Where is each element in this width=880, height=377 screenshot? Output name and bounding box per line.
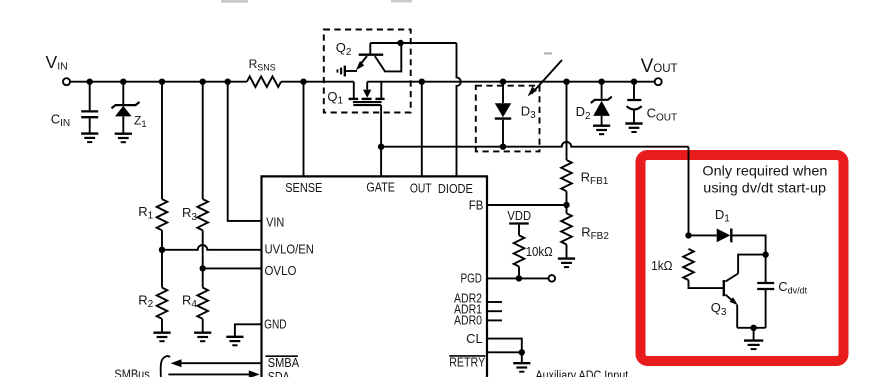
svg-text:GATE: GATE: [366, 181, 395, 195]
wire FB: [487, 204, 567, 206]
dashed box Q1 Q2: [324, 30, 411, 113]
wire GND pin: [235, 324, 262, 336]
resistor R4: [197, 288, 208, 319]
transistor Q1: [349, 82, 385, 105]
wire UVLO/EN with hop over R3 leg: [162, 245, 262, 250]
svg-text:SENSE: SENSE: [285, 181, 322, 195]
node R3 R4 OVLO junction: [200, 265, 206, 271]
wire R4 to ground: [202, 319, 204, 333]
capacitor COUT: [627, 82, 642, 123]
transistor Q2: [345, 43, 401, 71]
svg-text:VIN: VIN: [266, 215, 284, 229]
node D3 rail: [500, 79, 506, 85]
ground RFB2: [558, 259, 575, 268]
wire to ground: [521, 352, 523, 362]
wire input rail left: [70, 81, 247, 83]
diode D3: [495, 82, 511, 147]
ground COUT: [625, 124, 642, 133]
wire R1 branch from rail: [161, 82, 163, 199]
wire Q3 emitter to ground: [737, 327, 765, 329]
zener Z1: [112, 82, 140, 134]
svg-text:SMBus: SMBus: [114, 368, 149, 377]
wire CL: [487, 339, 522, 353]
svg-text:PGD: PGD: [461, 272, 482, 286]
svg-text:Auxiliary ADC Input: Auxiliary ADC Input: [536, 368, 629, 377]
wire into dv/dt circuit: [688, 147, 690, 236]
wire PGD: [487, 277, 549, 279]
capacitor CIN: [81, 82, 98, 134]
capacitor Cdvdt: [757, 255, 774, 328]
node R1 R2 UVLO junction: [159, 247, 165, 253]
ground R2: [153, 333, 170, 342]
svg-text:SDA: SDA: [268, 370, 291, 377]
resistor R2: [157, 288, 168, 319]
node VIN terminal: [63, 78, 70, 85]
node Z1 rail: [120, 79, 126, 85]
wire R1 to R2: [161, 230, 163, 287]
zener D2: [591, 82, 612, 125]
ground Z1: [115, 134, 132, 143]
resistor RSNS: [247, 76, 281, 87]
SMBus brace: [161, 356, 170, 377]
wire SDA arrow: [168, 373, 250, 375]
stub ADR1: [487, 310, 502, 312]
wire OVLO: [203, 267, 262, 269]
node PGD open terminal: [549, 275, 556, 282]
node SENSE rail: [300, 79, 306, 85]
diode D1: [689, 234, 717, 236]
svg-text:SMBA: SMBA: [268, 356, 300, 370]
node PGD junction: [516, 275, 522, 281]
transistor Q3: [724, 255, 766, 328]
red highlight box: [641, 155, 844, 361]
ground CIN: [81, 134, 98, 143]
dashed box D3: [476, 86, 540, 152]
svg-text:using dv/dt start-up: using dv/dt start-up: [703, 180, 826, 196]
node COUT rail: [631, 79, 637, 85]
IC box: [262, 176, 488, 377]
stub ADR0: [487, 319, 502, 321]
wire R3 to R4: [202, 230, 204, 287]
resistor R1: [157, 199, 168, 230]
wire gate row to dv/dt with hop over RFB leg: [381, 142, 688, 147]
node R1 rail: [159, 79, 165, 85]
node CL RETRY junction: [519, 349, 525, 355]
ground D2: [593, 126, 610, 135]
svg-text:OUT: OUT: [410, 182, 432, 196]
ground CL RETRY: [513, 363, 530, 372]
node VOUT terminal: [655, 78, 662, 85]
wire SENSE branch: [303, 82, 305, 177]
node D1 1k junction: [685, 232, 691, 238]
svg-text:GND: GND: [264, 318, 287, 332]
stub ADR2: [487, 301, 502, 303]
node RFB1 rail: [563, 79, 569, 85]
node D2 rail: [598, 79, 604, 85]
wire R2 to ground: [161, 319, 163, 333]
svg-text:10kΩ: 10kΩ: [526, 245, 553, 259]
ground GND pin: [226, 337, 243, 346]
node OUT rail: [419, 79, 425, 85]
cropped text remnants at top edge: [221, 0, 412, 3]
node Q3 collector junction: [762, 251, 768, 257]
resistor R3: [197, 199, 208, 230]
resistor RFB1: [566, 82, 568, 160]
node Q2 top wire junction: [397, 40, 403, 46]
wire OUT branch: [421, 82, 423, 177]
svg-text:VDD: VDD: [507, 209, 531, 223]
wire rail RSNS to Q1 drain: [281, 81, 354, 83]
faint dash remnant: [544, 52, 552, 54]
node R3 rail: [200, 79, 206, 85]
resistor 1k: [683, 249, 694, 280]
svg-text:RETRY: RETRY: [449, 356, 486, 370]
wire SMBA arrow: [178, 362, 262, 364]
svg-text:CL: CL: [466, 332, 483, 346]
annotation arrow to D3: [532, 60, 563, 94]
node VIN branch rail: [225, 79, 231, 85]
svg-text:DIODE: DIODE: [438, 182, 473, 196]
ground Q2 rotated: [338, 66, 345, 77]
node gate row junction: [378, 144, 384, 150]
node D3 bottom: [500, 144, 506, 150]
svg-text:1kΩ: 1kΩ: [651, 259, 673, 273]
wire output rail: [367, 81, 655, 83]
resistor RFB2: [566, 205, 568, 213]
node CIN rail: [87, 79, 93, 85]
svg-text:ADR0: ADR0: [454, 313, 482, 327]
wire DIODE branch with hop over rail: [457, 43, 461, 176]
wire Q2 collector to DIODE top: [370, 42, 456, 44]
svg-text:FB: FB: [469, 199, 484, 213]
ground R4: [194, 333, 211, 342]
node FB junction: [563, 202, 569, 208]
resistor 10k: [514, 235, 525, 266]
wire VIN pin branch: [228, 82, 262, 221]
svg-text:OVLO: OVLO: [265, 264, 297, 278]
svg-text:Only required when: Only required when: [702, 163, 827, 179]
wire gate lead to GATE pin: [380, 105, 382, 176]
svg-text:UVLO/EN: UVLO/EN: [265, 242, 314, 256]
ground Q3: [753, 328, 755, 340]
node Q3 ground junction: [750, 325, 756, 331]
wire R3 branch from rail: [202, 82, 204, 199]
wire RETRY: [487, 351, 522, 353]
